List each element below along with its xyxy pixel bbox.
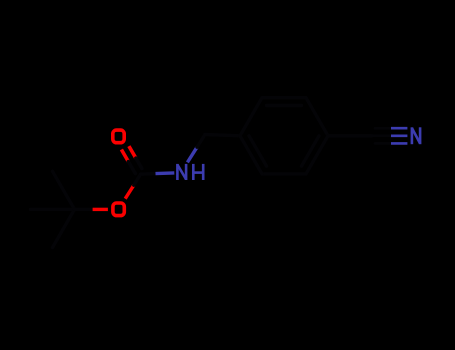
wire ring inner aromatic line C11-C6: [249, 136, 267, 166]
wire ring C9-C10: [306, 136, 328, 174]
bond O3-C2 oxygen half (red): [125, 185, 134, 199]
wire ring C10-C11: [262, 172, 306, 175]
bond N4-C5 nitrogen half (blue): [187, 147, 197, 162]
wire C14-C16 methyl left: [31, 208, 75, 211]
wire C9-C12 bond ring to nitrile carbon (black): [328, 134, 372, 137]
atom N13 nitrile nitrogen glyph: [412, 127, 420, 144]
atom N4 amide N glyph: [177, 164, 186, 180]
bond O3-C2 carbon half (black): [134, 174, 141, 185]
wire ring C6-C7: [240, 98, 262, 136]
wire C14-C15 methyl up-left: [53, 171, 75, 209]
bond C2=O1 double bond line B oxygen half (red): [129, 146, 136, 158]
atom O1 carbonyl oxygen glyph: [113, 130, 124, 143]
tert-butyl group (black skeleton): [31, 171, 93, 247]
wire ring inner aromatic line C7-C8: [267, 104, 302, 107]
wire C5-C6 benzylic bond (black): [205, 135, 240, 136]
bond C2=O1 double bond line A carbon half (black): [128, 162, 135, 174]
bond C2=O1 double bond line A oxygen half (red): [121, 150, 128, 162]
atom N4 amide H glyph: [193, 164, 203, 180]
bond C2-N4 carbon half (black): [141, 172, 156, 176]
wire ring C11-C6: [240, 136, 262, 174]
wire C14 to O3 (carbon half of C-O bond): [75, 208, 93, 211]
wire ring C7-C8: [262, 96, 306, 99]
wire ring inner aromatic line C9-C10: [302, 136, 320, 166]
bond O3-C14 oxygen half (red): [93, 208, 108, 211]
bond C12#N13 triple bond carbon halves (black): [372, 128, 391, 143]
bond C2=O1 double bond line B carbon half (black): [136, 158, 142, 168]
wire ring C8-C9: [306, 98, 328, 136]
wire C14-C17 methyl down-left: [53, 209, 75, 247]
atom O3 ester oxygen glyph: [113, 203, 124, 216]
bond C2-N4 nitrogen half (blue): [156, 171, 175, 175]
bond C12#N13 triple bond nitrogen halves (blue): [391, 128, 407, 143]
bond N4-C5 carbon half (black): [197, 135, 205, 148]
benzene ring (black skeleton): [240, 98, 328, 174]
